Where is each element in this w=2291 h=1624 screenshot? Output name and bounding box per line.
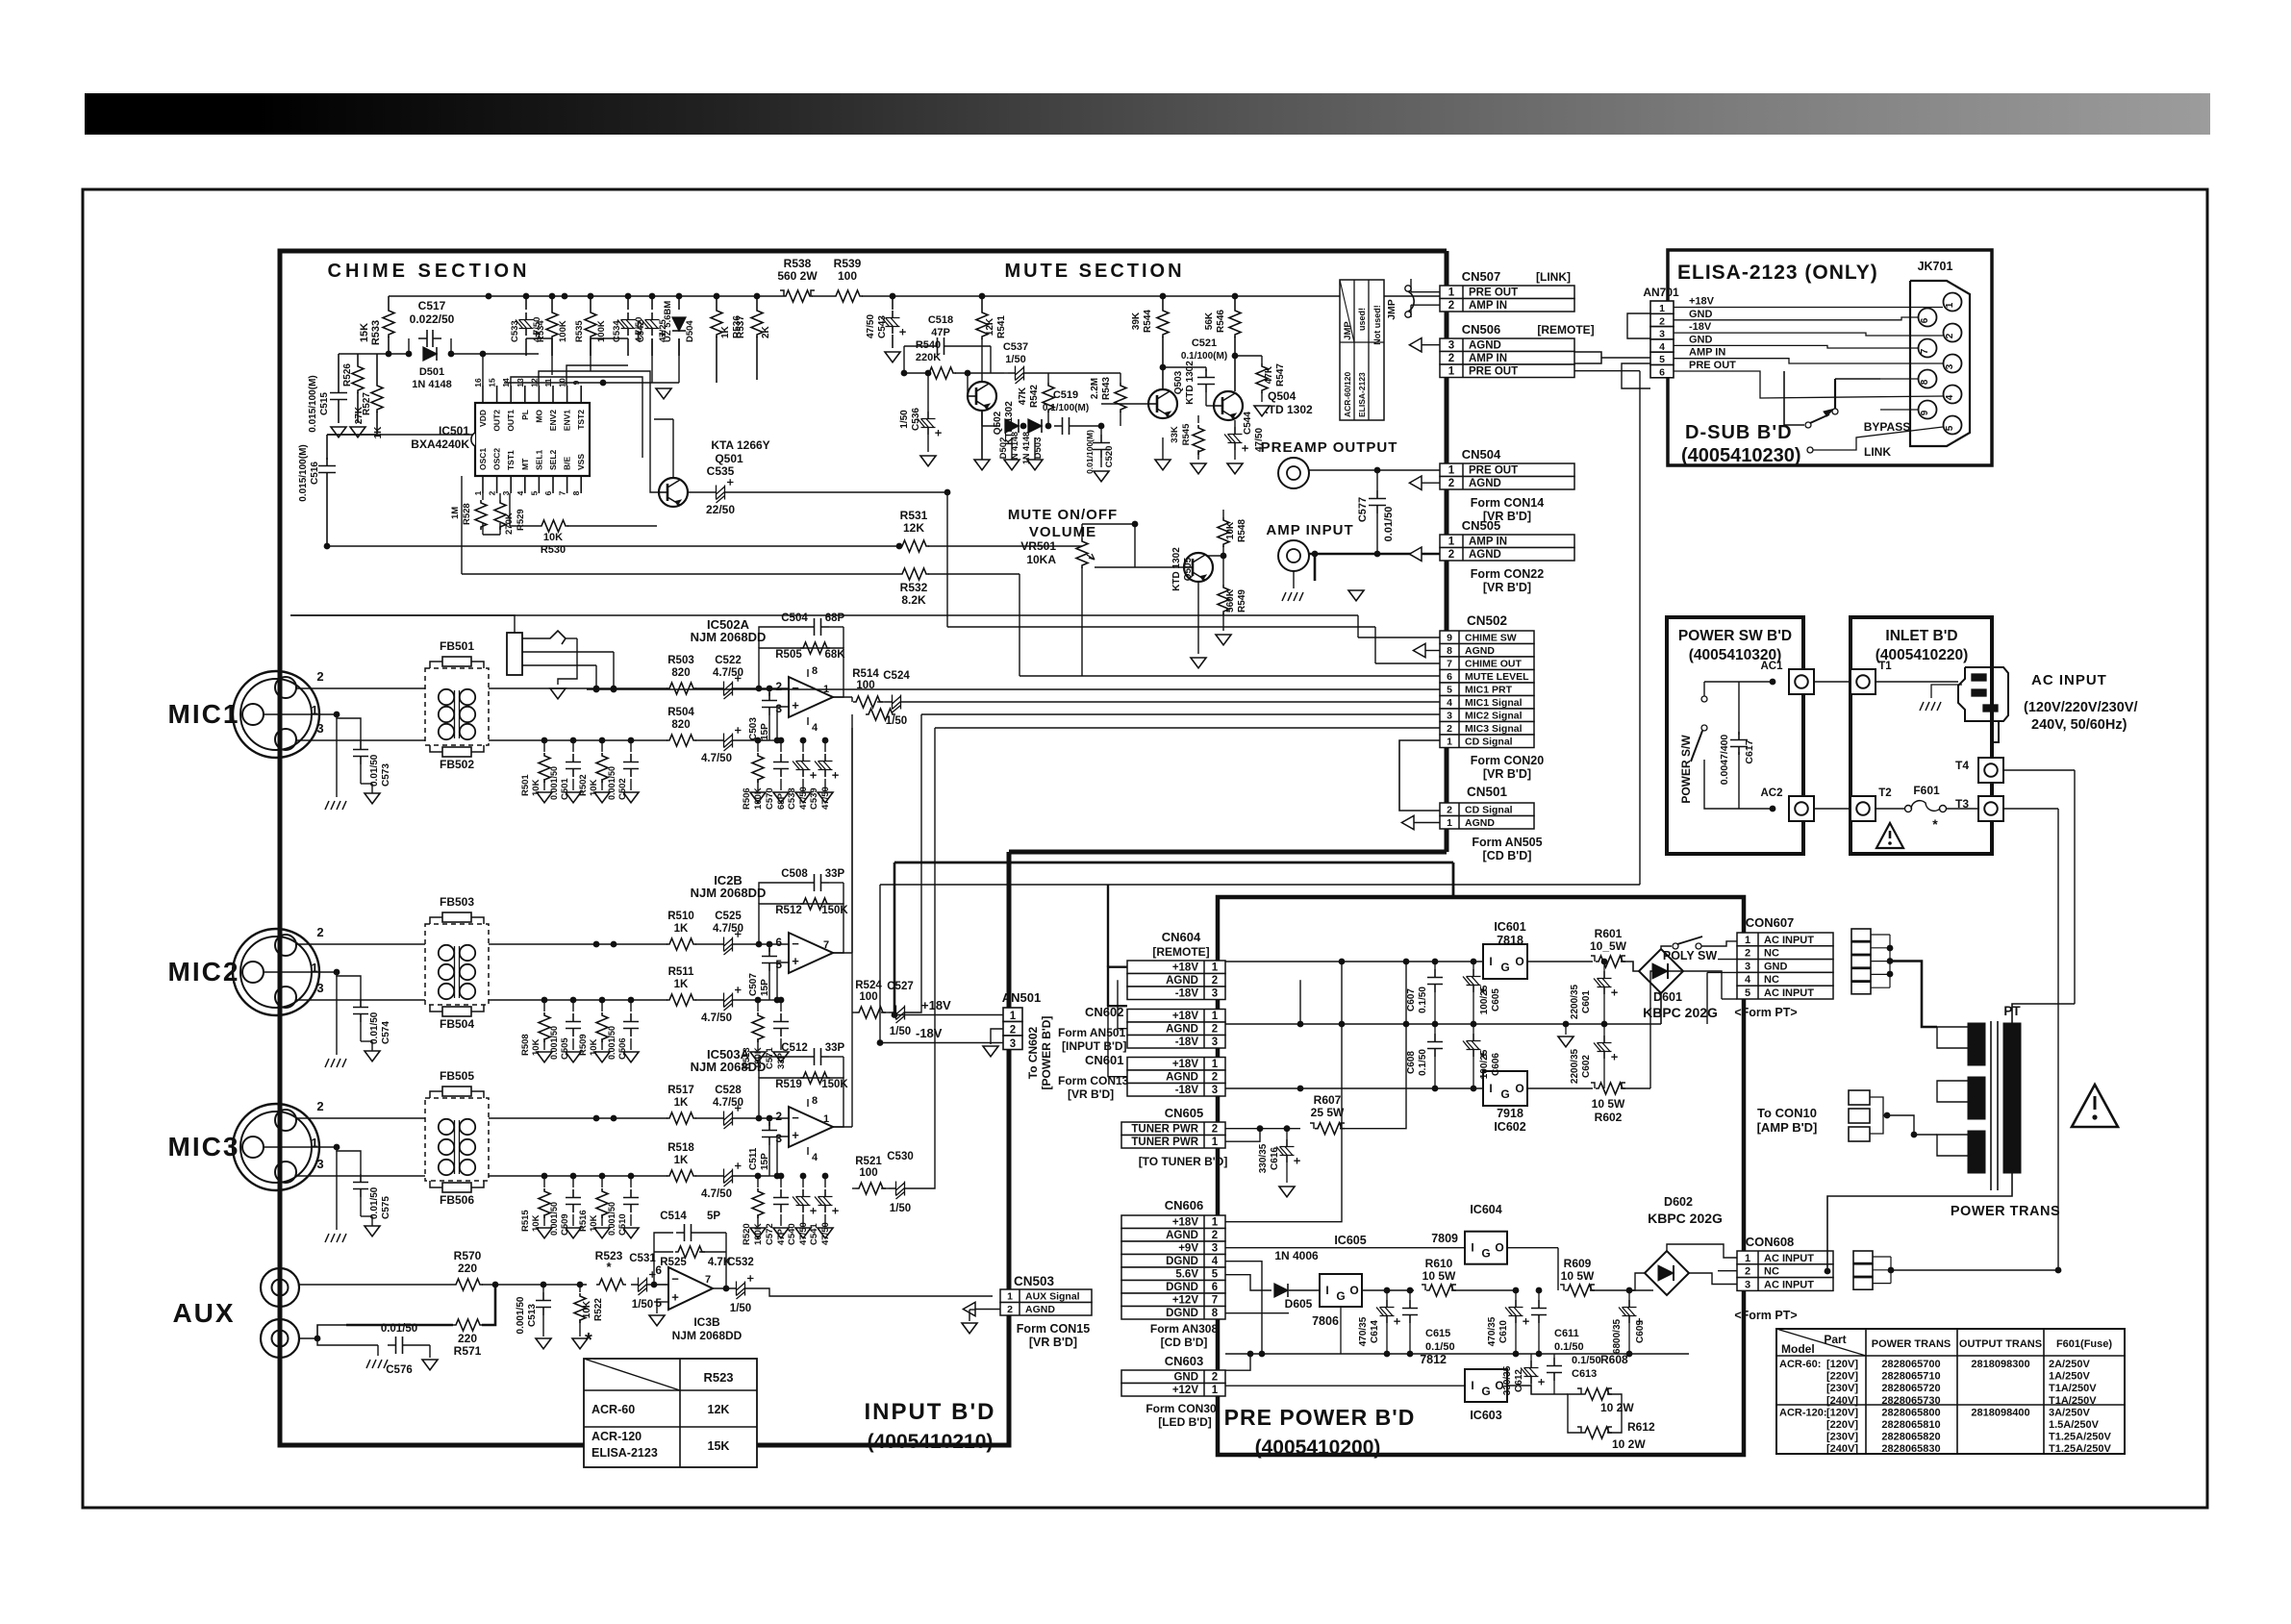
svg-text:AC INPUT: AC INPUT [1764, 987, 1814, 999]
svg-text:C577: C577 [1357, 497, 1369, 522]
svg-text:NJM 2068DD: NJM 2068DD [691, 630, 767, 644]
svg-text:0.001/50: 0.001/50 [549, 766, 559, 800]
CON608 mating blocks [1853, 1251, 1873, 1263]
svg-text:0.001/50: 0.001/50 [549, 1026, 559, 1060]
MIC2 input ground cap C574 [353, 999, 368, 1022]
CN506 wires to AN701 [1574, 357, 1608, 359]
svg-text:7: 7 [705, 1274, 711, 1286]
mute ground row [981, 411, 983, 460]
svg-text:Part: Part [1824, 1333, 1846, 1346]
svg-text:0.01/50: 0.01/50 [1383, 507, 1395, 542]
svg-text:TST1: TST1 [506, 450, 516, 470]
svg-text:AGND: AGND [1166, 1024, 1198, 1036]
svg-text:FB504: FB504 [440, 1017, 474, 1031]
wire MIC3 Signal row [856, 1183, 886, 1194]
svg-text:AGND: AGND [1166, 1072, 1198, 1084]
capacitor C610 470/35 [1515, 1290, 1517, 1300]
svg-text:2: 2 [1212, 975, 1218, 987]
svg-text:R537: R537 [736, 315, 746, 338]
svg-text:2: 2 [1212, 1230, 1218, 1241]
svg-text:ELISA-2123 (ONLY): ELISA-2123 (ONLY) [1677, 262, 1878, 284]
svg-text:DGND: DGND [1166, 1256, 1198, 1267]
svg-text:47/50: 47/50 [820, 787, 831, 810]
MIC3 wires to transformer [296, 1117, 425, 1119]
svg-text:MIC2: MIC2 [168, 957, 240, 987]
svg-text:240V, 50/60Hz): 240V, 50/60Hz) [2031, 717, 2127, 733]
+12V wire CN606 [1225, 1273, 1279, 1275]
svg-text:CON608: CON608 [1746, 1235, 1795, 1249]
svg-text:8: 8 [812, 665, 818, 677]
MIC2 shunt network R508 0.001/50 [489, 943, 667, 945]
capacitor C535 22/50 [688, 491, 709, 493]
MIC1 series resistors and caps [667, 683, 696, 694]
svg-text:7806: 7806 [1312, 1314, 1339, 1328]
svg-text:To CON10: To CON10 [1757, 1106, 1817, 1120]
svg-text:Form CON20: Form CON20 [1471, 754, 1544, 767]
resistor R609 10 5W [1565, 1285, 1595, 1296]
svg-text:7: 7 [558, 490, 567, 495]
AC inlet plug [1958, 667, 2008, 721]
svg-text:0.001/50: 0.001/50 [607, 766, 617, 800]
svg-text:1: 1 [1010, 1011, 1017, 1022]
capacitor C611 0.1/50 [1538, 1290, 1540, 1300]
svg-text:4: 4 [516, 490, 525, 495]
svg-text:5: 5 [1945, 425, 1955, 431]
resistor R533 15K [388, 296, 390, 308]
svg-text:C532: C532 [727, 1257, 754, 1268]
svg-text:FB503: FB503 [440, 895, 474, 909]
svg-text:12K: 12K [903, 521, 924, 535]
svg-text:C614: C614 [1370, 1320, 1380, 1343]
svg-text:[120V]: [120V] [1826, 1359, 1858, 1370]
svg-text:47/50: 47/50 [820, 1222, 831, 1245]
MIC2 wires to transformer [296, 943, 425, 945]
ferrite bead FB505 [430, 1091, 442, 1098]
svg-text:[220V]: [220V] [1826, 1419, 1858, 1431]
MIC3 series resistors and caps [667, 1112, 696, 1124]
svg-text:1.5A/250V: 1.5A/250V [2049, 1419, 2100, 1431]
svg-text:T1A/250V: T1A/250V [2049, 1383, 2097, 1394]
svg-text:CN503: CN503 [1014, 1274, 1055, 1288]
svg-text:C536: C536 [911, 408, 921, 431]
svg-text:OUTPUT TRANS: OUTPUT TRANS [1959, 1338, 2042, 1350]
svg-text:R503: R503 [667, 655, 694, 666]
JMP usage table [1340, 280, 1384, 420]
resistor R548 10K [1222, 510, 1224, 517]
svg-text:[INPUT B'D]: [INPUT B'D] [1062, 1039, 1127, 1053]
resistor R537 2K [756, 296, 758, 308]
svg-text:15P: 15P [760, 979, 770, 996]
svg-text:Form CON14: Form CON14 [1471, 496, 1544, 510]
svg-text:2: 2 [1659, 315, 1665, 327]
svg-text:C575: C575 [381, 1196, 391, 1219]
svg-text:O: O [1495, 1241, 1503, 1255]
svg-text:FB505: FB505 [440, 1069, 474, 1083]
svg-text:9: 9 [571, 380, 581, 385]
svg-text:C573: C573 [381, 763, 391, 787]
svg-text:1/50: 1/50 [886, 715, 907, 727]
svg-text:R510: R510 [667, 911, 694, 922]
capacitor C609 6800/35 [1628, 1290, 1630, 1300]
svg-text:NC: NC [1764, 948, 1779, 960]
svg-text:330/35: 330/35 [1258, 1143, 1269, 1173]
svg-text:R523: R523 [703, 1370, 733, 1385]
PT outline wires [1937, 1027, 1968, 1048]
svg-text:0.1/50: 0.1/50 [1572, 1355, 1601, 1366]
svg-text:[120V]: [120V] [1826, 1407, 1858, 1418]
svg-text:2: 2 [1448, 478, 1454, 489]
svg-text:MIC1 Signal: MIC1 Signal [1465, 697, 1523, 709]
MIC2 + input jog [777, 962, 789, 1000]
svg-text:8.2K: 8.2K [901, 593, 926, 607]
svg-text:[POWER B'D]: [POWER B'D] [1040, 1016, 1053, 1090]
svg-text:1M: 1M [450, 507, 461, 519]
inlet earth ground [1931, 685, 1962, 698]
svg-text:C507: C507 [748, 973, 759, 996]
svg-text:47/50: 47/50 [798, 1222, 809, 1245]
MIC1 wires to transformer [296, 687, 425, 689]
svg-text:C606: C606 [1491, 1053, 1501, 1076]
svg-text:[240V]: [240V] [1826, 1443, 1858, 1455]
svg-text:C525: C525 [715, 911, 742, 922]
svg-text:R532: R532 [900, 581, 928, 594]
svg-text:AGND: AGND [1166, 1230, 1198, 1241]
svg-text:100: 100 [838, 269, 857, 283]
svg-text:2200/35: 2200/35 [1570, 984, 1580, 1019]
capacitor C518 47P [904, 345, 929, 347]
svg-text:1: 1 [1212, 1137, 1219, 1148]
remote wire down to CN604 [1107, 885, 1109, 967]
svg-text:R608: R608 [1600, 1353, 1628, 1366]
svg-text:[VR B'D]: [VR B'D] [1483, 767, 1531, 781]
svg-text:R543: R543 [1101, 377, 1112, 400]
svg-text:I: I [1325, 1284, 1328, 1297]
svg-text:BXA4240K: BXA4240K [411, 437, 469, 451]
svg-text:3: 3 [1010, 1038, 1016, 1050]
INLET B'D box [1850, 617, 1992, 854]
link switch [1807, 447, 1813, 453]
svg-text:*: * [585, 1330, 592, 1351]
wire MUTE LEVEL row [1019, 574, 1020, 676]
svg-text:OUT2: OUT2 [492, 410, 502, 432]
svg-text:C505: C505 [560, 1037, 570, 1060]
svg-text:NC: NC [1764, 1266, 1779, 1278]
svg-text:TUNER PWR: TUNER PWR [1131, 1137, 1198, 1148]
svg-text:220: 220 [458, 1332, 477, 1345]
svg-text:IC501: IC501 [439, 424, 469, 437]
svg-text:ACR-60: ACR-60 [592, 1403, 635, 1416]
svg-text:CON607: CON607 [1746, 915, 1795, 930]
svg-text:C521: C521 [1192, 337, 1217, 349]
svg-text:0.1/50: 0.1/50 [1418, 1049, 1428, 1076]
svg-text:R506: R506 [742, 787, 752, 810]
svg-text:1/50: 1/50 [890, 1203, 911, 1214]
svg-text:R526: R526 [342, 363, 353, 387]
svg-text:R512: R512 [775, 905, 802, 916]
svg-text:12K: 12K [985, 317, 995, 336]
GND wire CN603 [1225, 1354, 1250, 1370]
svg-text:C543: C543 [877, 315, 888, 338]
svg-text:G: G [1336, 1289, 1345, 1303]
svg-text:CN605: CN605 [1165, 1106, 1203, 1120]
svg-text:ACR-60/120: ACR-60/120 [1343, 371, 1352, 417]
svg-text:JMP: JMP [1343, 321, 1353, 340]
svg-text:Q502: Q502 [993, 411, 1003, 435]
svg-text:1: 1 [1448, 537, 1455, 548]
svg-text:T2: T2 [1878, 787, 1891, 799]
svg-text:D605: D605 [1285, 1297, 1313, 1311]
svg-text:KTD 1302: KTD 1302 [1260, 403, 1313, 416]
svg-text:1: 1 [1448, 366, 1455, 378]
svg-text:FB502: FB502 [440, 758, 474, 771]
resistor R529 270K [499, 493, 501, 500]
svg-text:R502: R502 [578, 774, 589, 796]
svg-text:R511: R511 [668, 966, 694, 978]
svg-text:7812: 7812 [1420, 1353, 1447, 1366]
svg-text:O: O [1349, 1284, 1358, 1297]
svg-text:3: 3 [1745, 961, 1750, 972]
diode D501 1N4148 [423, 347, 437, 361]
svg-text:220: 220 [458, 1262, 477, 1275]
resistor R543 2.2M [1120, 373, 1121, 383]
svg-text:C542: C542 [636, 320, 646, 342]
svg-text:I: I [1489, 1082, 1492, 1095]
svg-text:R549: R549 [1237, 589, 1247, 612]
svg-text:0.01/50: 0.01/50 [369, 1187, 380, 1219]
svg-text:0.001/50: 0.001/50 [549, 1202, 559, 1236]
svg-text:C527: C527 [887, 981, 914, 992]
svg-text:JK701: JK701 [1918, 260, 1953, 273]
svg-text:D601: D601 [1653, 990, 1682, 1004]
svg-text:KBPC 202G: KBPC 202G [1648, 1211, 1723, 1226]
svg-text:[220V]: [220V] [1826, 1371, 1858, 1383]
svg-text:C617: C617 [1744, 739, 1755, 763]
svg-text:0.1/100(M): 0.1/100(M) [1181, 351, 1227, 362]
svg-text:0.1/50: 0.1/50 [1418, 987, 1428, 1013]
POWER SW B'D box [1667, 617, 1803, 854]
svg-text:ACR-120: ACR-120 [592, 1430, 642, 1443]
DGND stubs from CN606 [1225, 1262, 1262, 1354]
svg-text:4.7/50: 4.7/50 [701, 1012, 732, 1024]
svg-text:2: 2 [488, 490, 497, 495]
svg-text:G: G [1500, 961, 1509, 974]
svg-text:2: 2 [1010, 1025, 1016, 1037]
inlet wiring [1876, 681, 1958, 683]
svg-text:Q505: Q505 [1183, 557, 1194, 581]
svg-text:[REMOTE]: [REMOTE] [1537, 323, 1594, 337]
svg-text:INLET B'D: INLET B'D [1885, 628, 1957, 644]
svg-text:FB501: FB501 [440, 639, 474, 653]
svg-text:R509: R509 [578, 1034, 589, 1056]
svg-text:VSS: VSS [576, 454, 586, 470]
resistor R532 8.2K [462, 573, 899, 575]
svg-text:SEL1: SEL1 [534, 449, 543, 470]
svg-text:1/50: 1/50 [632, 1299, 653, 1311]
svg-text:C528: C528 [715, 1085, 742, 1096]
svg-text:16: 16 [473, 378, 483, 387]
svg-text:0.001/50: 0.001/50 [516, 1296, 526, 1334]
svg-text:C504: C504 [781, 612, 808, 624]
capacitor C616 330/35 [1286, 1129, 1288, 1139]
+18V rail [1225, 961, 1483, 962]
svg-text:5P: 5P [707, 1211, 720, 1222]
svg-text:1: 1 [1448, 287, 1455, 299]
svg-text:D502: D502 [998, 437, 1009, 460]
svg-text:R545: R545 [1181, 423, 1192, 445]
svg-text:NJM 2068DD: NJM 2068DD [691, 886, 767, 900]
svg-text:AN701: AN701 [1643, 286, 1679, 299]
svg-text:VOLUME: VOLUME [1029, 524, 1096, 540]
svg-text:T1: T1 [1878, 661, 1892, 672]
AGND rail [1225, 1023, 1661, 1025]
svg-text:CN502: CN502 [1467, 613, 1507, 628]
svg-text:PRE OUT: PRE OUT [1689, 360, 1736, 371]
svg-text:3: 3 [1447, 711, 1452, 722]
svg-text:2: 2 [316, 925, 323, 939]
svg-text:1K: 1K [674, 979, 689, 990]
svg-text:MUTE SECTION: MUTE SECTION [1004, 261, 1184, 282]
op-amp IC502A NJM 2068DD [789, 677, 833, 717]
svg-text:C531: C531 [629, 1253, 656, 1264]
-18V rail [1225, 1087, 1483, 1089]
svg-text:4: 4 [812, 1152, 818, 1163]
svg-text:0.015/100(M): 0.015/100(M) [308, 375, 318, 432]
capacitor C531 1/50 [631, 1284, 654, 1286]
svg-text:1: 1 [1212, 1059, 1219, 1070]
bus wire y920 [880, 884, 1640, 886]
svg-text:KTD 1302: KTD 1302 [1171, 547, 1182, 591]
wire MIC2 Signal row [866, 709, 895, 720]
svg-text:1: 1 [1212, 1217, 1219, 1229]
svg-text:1K: 1K [373, 426, 384, 439]
svg-text:13: 13 [516, 378, 525, 387]
svg-text:C540: C540 [787, 1223, 797, 1245]
svg-text:10K: 10K [1225, 521, 1236, 539]
svg-text:6: 6 [775, 936, 782, 949]
svg-text:AC1: AC1 [1760, 661, 1783, 672]
resistor R540 220K [904, 372, 926, 374]
svg-text:10K: 10K [589, 1214, 599, 1232]
svg-text:1K: 1K [674, 1155, 689, 1166]
MIC2 isolation transformer FB503/FB504 [425, 924, 489, 1005]
tuner power R607 25 5W [1225, 1128, 1300, 1130]
svg-text:C508: C508 [781, 868, 808, 880]
svg-text:6800/35: 6800/35 [1612, 1318, 1623, 1354]
svg-text:−: − [792, 937, 799, 951]
svg-text:IC601: IC601 [1494, 920, 1525, 934]
svg-text:B/E: B/E [563, 457, 572, 471]
svg-text:C570: C570 [765, 787, 775, 810]
svg-text:R607: R607 [1314, 1093, 1342, 1107]
svg-text:3: 3 [1212, 988, 1218, 1000]
svg-text:1: 1 [311, 703, 317, 717]
capacitor C612 330/35 [1530, 1354, 1532, 1361]
svg-text:+9V: +9V [1178, 1243, 1198, 1255]
svg-text:150K: 150K [821, 905, 848, 916]
svg-text:0.001/50: 0.001/50 [607, 1202, 617, 1236]
svg-text:R504: R504 [667, 707, 694, 718]
svg-text:10K: 10K [531, 1214, 541, 1232]
svg-text:C537: C537 [1003, 341, 1028, 353]
svg-text:47P: 47P [776, 1228, 787, 1245]
transistor Q504 KTD1302 [1214, 391, 1243, 420]
svg-text:CN601: CN601 [1085, 1053, 1123, 1067]
svg-text:CN507: CN507 [1462, 269, 1500, 284]
svg-text:Form CON15: Form CON15 [1017, 1322, 1090, 1336]
svg-text:1: 1 [1212, 1011, 1219, 1022]
svg-text:[LINK]: [LINK] [1536, 270, 1571, 284]
svg-text:2: 2 [775, 680, 782, 693]
svg-text:1: 1 [1659, 303, 1665, 314]
svg-text:Form CON30: Form CON30 [1145, 1402, 1217, 1415]
svg-text:R544: R544 [1143, 310, 1153, 333]
svg-text:ENV1: ENV1 [563, 410, 572, 431]
svg-text:10 5W: 10 5W [1422, 1269, 1456, 1283]
svg-text:[230V]: [230V] [1826, 1383, 1858, 1394]
svg-text:10K: 10K [531, 1038, 541, 1056]
svg-text:8: 8 [571, 490, 581, 495]
MIC1 shunt network R501 0.001/50 [489, 687, 667, 689]
svg-text:C501: C501 [560, 778, 570, 800]
svg-text:[240V]: [240V] [1826, 1395, 1858, 1407]
svg-text:C615: C615 [1425, 1328, 1450, 1339]
svg-text:-18V: -18V [916, 1026, 943, 1040]
svg-text:Form AN505: Form AN505 [1472, 836, 1542, 849]
svg-text:ENV2: ENV2 [548, 410, 558, 431]
svg-text:F601: F601 [1913, 784, 1940, 797]
svg-text:KTA 1266Y: KTA 1266Y [711, 438, 769, 452]
capacitor C532 1/50 [713, 1287, 729, 1289]
svg-text:1/50: 1/50 [730, 1303, 751, 1314]
svg-text:GND: GND [1689, 309, 1713, 320]
jack grounds [1314, 473, 1316, 477]
svg-text:47K: 47K [1264, 365, 1274, 384]
svg-text:C610: C610 [1498, 1320, 1509, 1343]
svg-text:R542: R542 [1029, 385, 1040, 408]
svg-text:R612: R612 [1627, 1420, 1655, 1434]
svg-text:1: 1 [1945, 302, 1955, 308]
potentiometer VR501 10KA [1081, 524, 1083, 538]
svg-text:8: 8 [1920, 379, 1930, 385]
svg-text:[REMOTE]: [REMOTE] [1152, 945, 1209, 959]
svg-text:1: 1 [473, 490, 483, 495]
svg-text:POLY SW: POLY SW [1663, 949, 1717, 962]
svg-text:R508: R508 [520, 1034, 531, 1056]
svg-text:O: O [1515, 955, 1523, 968]
svg-text:AC2: AC2 [1760, 787, 1782, 799]
svg-text:−: − [792, 681, 799, 695]
svg-text:2828065700: 2828065700 [1881, 1359, 1940, 1370]
svg-text:R602: R602 [1595, 1111, 1623, 1124]
resistor R527 1K [376, 354, 378, 383]
capacitor C577 0.01/50 [1376, 470, 1378, 490]
resistor R571 220 [299, 1325, 346, 1338]
DGND rail [1225, 1353, 1689, 1355]
svg-text:INPUT B'D: INPUT B'D [864, 1399, 995, 1425]
svg-text:100: 100 [859, 991, 877, 1003]
svg-text:(4005410210): (4005410210) [868, 1431, 994, 1453]
capacitor C607 0.1/50 [1434, 962, 1436, 969]
svg-text:1/50: 1/50 [1005, 354, 1025, 365]
svg-text:ACR-120:: ACR-120: [1779, 1407, 1827, 1418]
svg-text:+12V: +12V [1172, 1295, 1199, 1307]
svg-text:2: 2 [1212, 1124, 1218, 1136]
svg-text:4: 4 [1659, 341, 1665, 353]
svg-text:NC: NC [1764, 974, 1779, 986]
svg-text:2: 2 [1745, 948, 1750, 960]
svg-text:LINK: LINK [1864, 445, 1891, 459]
svg-text:3: 3 [316, 1157, 323, 1171]
